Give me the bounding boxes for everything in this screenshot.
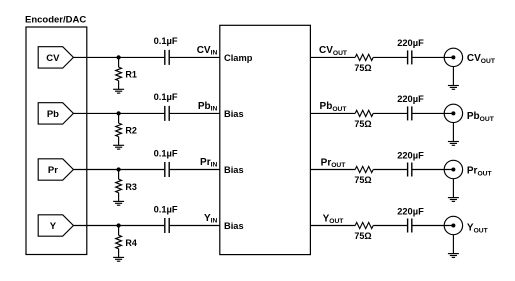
ground under PbOUT jack (448, 142, 459, 146)
svg-text:Clamp: Clamp (224, 53, 253, 63)
connector jack CVOUT (444, 48, 462, 66)
wire PbOUT pin to 75ohm resistor (310, 112, 355, 114)
resistor 75ohm (CV output) (355, 54, 373, 60)
ground under R3 (113, 201, 124, 205)
capacitor 220uF (Pr output) (408, 163, 412, 177)
svg-text:Pb: Pb (47, 109, 59, 120)
node junction Pr (117, 167, 121, 171)
ground under R2 (113, 145, 124, 149)
svg-text:220µF: 220µF (397, 206, 424, 216)
ground under PrOUT jack (448, 198, 459, 202)
wire PrOUT pin to 75ohm resistor (310, 169, 355, 171)
resistor 75ohm (Y output) (355, 222, 373, 228)
svg-text:R2: R2 (125, 126, 137, 136)
wire 0.1uF cap to PbIN pin (169, 112, 220, 114)
svg-text:Bias: Bias (224, 109, 244, 119)
svg-text:R4: R4 (125, 238, 137, 248)
wire 220uF cap to output jack (412, 56, 454, 58)
capacitor 0.1uF (Y input) (165, 218, 169, 233)
resistor R2 (116, 113, 122, 145)
connector jack PbOUT (444, 104, 462, 122)
wire 75ohm resistor to 220uF cap (373, 225, 407, 227)
svg-text:Bias: Bias (224, 221, 244, 231)
wire 220uF cap to output jack (412, 112, 454, 114)
svg-text:R1: R1 (125, 70, 137, 80)
ground under R1 (113, 89, 124, 93)
svg-text:75Ω: 75Ω (354, 63, 371, 73)
svg-text:75Ω: 75Ω (354, 175, 371, 185)
signal tag CV (38, 47, 73, 68)
Encoder/DAC block (26, 27, 87, 255)
wire jack to ground (452, 235, 454, 254)
wire 0.1uF cap to PrIN pin (169, 169, 220, 171)
capacitor 220uF (Pb output) (408, 106, 412, 120)
wire 75ohm resistor to 220uF cap (373, 112, 407, 114)
signal tag Y (38, 215, 73, 236)
wire Y to 0.1uF cap (73, 225, 164, 227)
wire jack to ground (452, 123, 454, 142)
connector jack PrOUT (444, 160, 462, 178)
wire jack to ground (452, 179, 454, 198)
node junction CV (117, 55, 121, 59)
node junction Y (117, 223, 121, 227)
signal tag Pb (38, 103, 73, 124)
capacitor 0.1uF (Pb input) (165, 106, 169, 121)
wire CV to 0.1uF cap (73, 56, 164, 58)
signal tag Pr (38, 159, 73, 180)
svg-text:0.1µF: 0.1µF (154, 204, 178, 214)
svg-text:Y: Y (50, 221, 57, 232)
capacitor 0.1uF (CV input) (165, 50, 169, 65)
svg-text:0.1µF: 0.1µF (154, 148, 178, 158)
svg-text:220µF: 220µF (397, 94, 424, 104)
wire Pr to 0.1uF cap (73, 169, 164, 171)
node junction Pb (117, 111, 121, 115)
resistor R3 (116, 170, 122, 202)
wire CVOUT pin to 75ohm resistor (310, 56, 355, 58)
svg-text:CV: CV (46, 53, 60, 64)
svg-text:220µF: 220µF (397, 150, 424, 160)
wire 220uF cap to output jack (412, 225, 454, 227)
ground under CVOUT jack (448, 86, 459, 90)
capacitor 0.1uF (Pr input) (165, 162, 169, 177)
capacitor 220uF (Y output) (408, 219, 412, 233)
svg-text:0.1µF: 0.1µF (154, 92, 178, 102)
capacitor 220uF (CV output) (408, 50, 412, 64)
svg-text:Encoder/DAC: Encoder/DAC (25, 14, 86, 25)
resistor 75ohm (Pb output) (355, 110, 373, 116)
ground under YOUT jack (448, 254, 459, 258)
wire 0.1uF cap to CVIN pin (169, 56, 220, 58)
svg-text:75Ω: 75Ω (354, 119, 371, 129)
svg-text:Bias: Bias (224, 165, 244, 175)
resistor 75ohm (Pr output) (355, 166, 373, 172)
resistor R4 (116, 226, 122, 258)
wire YOUT pin to 75ohm resistor (310, 225, 355, 227)
svg-text:0.1µF: 0.1µF (154, 36, 178, 46)
wire 75ohm resistor to 220uF cap (373, 169, 407, 171)
wire 0.1uF cap to YIN pin (169, 225, 220, 227)
ground under R4 (113, 257, 124, 261)
connector jack YOUT (444, 216, 462, 234)
wire 75ohm resistor to 220uF cap (373, 56, 407, 58)
wire Pb to 0.1uF cap (73, 112, 164, 114)
IC block (video amplifier) (220, 25, 311, 254)
svg-text:R3: R3 (125, 182, 137, 192)
resistor R1 (116, 57, 122, 89)
svg-text:Pr: Pr (48, 165, 58, 176)
svg-text:75Ω: 75Ω (354, 231, 371, 241)
svg-text:220µF: 220µF (397, 38, 424, 48)
wire 220uF cap to output jack (412, 169, 454, 171)
wire jack to ground (452, 67, 454, 86)
